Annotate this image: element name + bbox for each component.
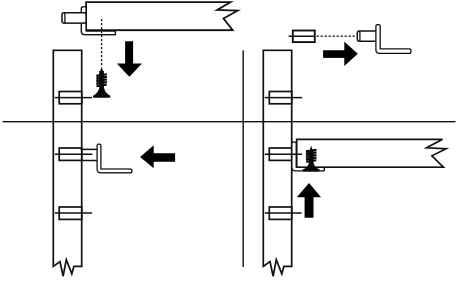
right plank slot 2 midline <box>265 153 302 155</box>
top board (with break symbol at right) <box>86 2 238 30</box>
dowel block (top-right) <box>293 31 315 43</box>
dashed guide line top-left <box>101 19 103 67</box>
bracket U-top-right <box>376 25 411 54</box>
right plank slot 3 <box>269 207 292 219</box>
left arrow <box>140 145 175 168</box>
screw S1 (top-left) <box>93 67 111 98</box>
left plank slot 1 midline <box>55 97 92 99</box>
bracket U-top-left (under top board) <box>81 7 115 35</box>
horizontal divider line <box>3 121 456 123</box>
left plank slot 1 <box>59 92 82 104</box>
right plank slot 2 <box>269 148 292 160</box>
bottom board (with break symbol at right) <box>297 139 446 167</box>
bracket U-bottom-right (in slot, under board) <box>292 142 325 171</box>
up arrow <box>297 183 321 218</box>
dashed guide line top-right <box>317 35 357 37</box>
right plank slot 1 <box>269 92 292 104</box>
left plank slot 2 midline <box>55 153 93 155</box>
dowel midline solid <box>289 35 315 37</box>
vertical divider line <box>242 50 244 267</box>
left plank slot 3 midline <box>55 212 92 214</box>
down arrow <box>117 41 142 77</box>
left plank slot 3 <box>59 207 82 219</box>
right plank slot 3 midline <box>265 212 302 214</box>
right arrow <box>323 42 358 66</box>
peg of bottom-left bracket (entering slot) <box>81 148 98 150</box>
screw S2 (bottom-right) <box>302 146 320 172</box>
peg of top-right bracket <box>357 31 377 41</box>
peg of top-left bracket <box>62 13 86 23</box>
left plank <box>53 50 81 276</box>
left plank slot 2 <box>59 148 82 160</box>
bracket U-bottom-left <box>97 144 132 173</box>
right plank slot 1 midline <box>265 97 302 99</box>
right plank <box>263 50 291 276</box>
